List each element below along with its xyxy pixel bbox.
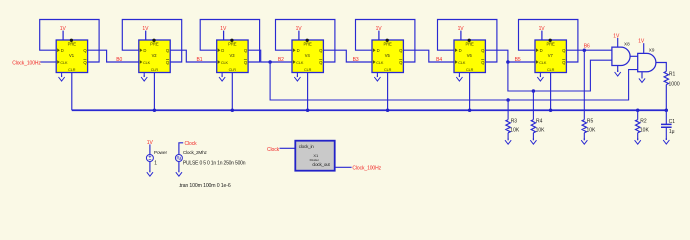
AND gate X9 (638, 48, 656, 72)
svg-text:D: D (143, 48, 146, 53)
wire 1V stub V4 (298, 31, 300, 40)
svg-text:B5: B5 (515, 57, 521, 63)
svg-text:B3: B3 (353, 57, 359, 63)
flip-flop V6 (454, 39, 485, 73)
wire B5 net to X8 input (508, 60, 612, 91)
resistor R1 (664, 71, 668, 84)
svg-text:CLR: CLR (384, 68, 392, 72)
svg-text:PULSE 0 5 0 1n 1n 250n 500n: PULSE 0 5 0 1n 1n 250n 500n (183, 160, 246, 166)
wire Qbar-to-D feedback loop V4 (276, 20, 335, 63)
svg-text:PRE: PRE (383, 42, 392, 47)
flip-flop V7 (535, 39, 566, 73)
svg-text:V2: V2 (152, 53, 158, 58)
wire V6 CLR to reset bus (469, 73, 471, 111)
svg-text:V1: V1 (69, 53, 75, 58)
wire 1V stub V1 (62, 31, 64, 40)
svg-text:Clock_2Mhz: Clock_2Mhz (183, 150, 208, 155)
svg-text:10K: 10K (510, 128, 520, 134)
svg-text:CLR: CLR (466, 68, 474, 72)
svg-text:1μ: 1μ (669, 129, 675, 135)
wire V5 ground stub (376, 73, 378, 78)
svg-text:R2: R2 (640, 119, 647, 125)
resistor R3 (506, 120, 510, 133)
wire R1 to reset bus (665, 85, 667, 111)
junction CLR drop on reset bus (306, 108, 310, 112)
wire Q2 (B1) to V3 CLK (170, 50, 217, 62)
svg-text:CLK: CLK (296, 61, 304, 65)
wire 1V stub V7 (541, 31, 543, 40)
junction CLR drop on reset bus (153, 108, 157, 112)
ground at R5 (581, 138, 587, 144)
wire V7 ground stub (539, 73, 541, 78)
ground at R4 (530, 138, 536, 144)
svg-text:Clock: Clock (267, 147, 280, 153)
wire Q5 (B4) to V6 CLK (403, 50, 454, 62)
wire Power source top lead (149, 144, 151, 154)
svg-text:D: D (297, 48, 300, 53)
wire Q3 (B2) to V4 CLK (248, 50, 292, 62)
ground at V7 (537, 75, 543, 81)
wire Clock source bottom lead (178, 162, 180, 173)
ground at R3 (505, 138, 511, 144)
svg-text:CLK: CLK (376, 61, 384, 65)
junction R2 on reset bus (636, 108, 640, 112)
wire 1V stub V3 (223, 31, 225, 40)
ground at Clock source (176, 170, 182, 176)
AND gate X8 (612, 42, 630, 66)
wire R3 top lead (507, 100, 509, 120)
svg-text:R5: R5 (587, 119, 594, 125)
junction CLR drop on reset bus (231, 108, 235, 112)
resistor R2 (636, 120, 640, 133)
wire Qbar-to-D feedback loop V6 (438, 20, 497, 63)
subcircuit X1 Divider (295, 141, 334, 171)
svg-text:CLK: CLK (60, 61, 68, 65)
junction CLR drop on reset bus (549, 108, 553, 112)
wire 1V stub X9 (643, 43, 645, 53)
svg-text:X1: X1 (313, 153, 319, 158)
svg-text:Clock_100Hz: Clock_100Hz (12, 61, 41, 67)
svg-text:PRE: PRE (546, 42, 555, 47)
resistor R5 (582, 120, 586, 133)
svg-text:Power: Power (154, 150, 168, 156)
wire Clock source to Clock label (179, 143, 183, 155)
wire X9 ground stub (641, 72, 643, 78)
wire Clock_100Hz to V1 CLK (41, 61, 57, 63)
junction R4 on B5 net (532, 89, 536, 93)
wire V4 ground stub (296, 73, 298, 78)
wire Clock to X1 clock_in (280, 147, 296, 149)
wire C1 top lead (665, 110, 667, 124)
svg-text:B6: B6 (584, 43, 590, 49)
svg-text:CLR: CLR (304, 68, 312, 72)
svg-text:Clock_100Hz: Clock_100Hz (352, 166, 381, 172)
ground at V4 (294, 75, 300, 81)
wire V2 CLR to reset bus (153, 73, 155, 111)
svg-text:X9: X9 (649, 48, 655, 53)
ground at R2 (635, 138, 641, 144)
ground at V2 (141, 75, 147, 81)
svg-text:V3: V3 (229, 53, 235, 58)
flip-flop V5 (372, 39, 403, 73)
wire X1 clock_out (335, 166, 352, 168)
wire Q4 (B3) to V5 CLK (323, 50, 372, 62)
wire V1 CLR to reset bus (71, 73, 73, 111)
ground at C1 (663, 138, 669, 144)
wire Qbar-to-D feedback loop V2 (122, 20, 181, 63)
voltage source Clock_2Mhz (175, 150, 245, 167)
wire V6 ground stub (458, 73, 460, 78)
wire Q1 (B0) to V2 CLK (88, 50, 139, 62)
svg-text:PRE: PRE (228, 42, 237, 47)
svg-text:X8: X8 (624, 42, 630, 47)
wire B6 down to R5 (583, 50, 585, 119)
ground at V1 (59, 75, 65, 81)
junction CLR drop on reset bus (468, 108, 472, 112)
wire Qbar-to-D feedback loop V1 (40, 20, 99, 63)
svg-text:CLK: CLK (143, 61, 151, 65)
svg-text:.tran 100m 100m 0 1e-6: .tran 100m 100m 0 1e-6 (179, 183, 231, 189)
svg-text:D: D (377, 48, 380, 53)
wire reset bus CLR net (72, 109, 667, 111)
svg-text:R1: R1 (669, 71, 676, 77)
svg-text:PRE: PRE (68, 42, 77, 47)
wire 1V stub V6 (460, 31, 462, 40)
flip-flop V2 (139, 39, 170, 73)
wire R5 bottom lead (583, 133, 585, 140)
svg-text:B4: B4 (436, 57, 442, 63)
wire Qbar-to-D feedback loop V5 (356, 20, 415, 63)
svg-text:B0: B0 (116, 57, 122, 63)
wire X8 output to X9 input (630, 55, 638, 57)
flip-flop V3 (217, 39, 248, 73)
wire 1V stub X8 (617, 38, 619, 47)
wire R4 top lead (532, 91, 534, 120)
svg-text:CLR: CLR (547, 68, 555, 72)
svg-text:PRE: PRE (303, 42, 312, 47)
svg-text:B2: B2 (278, 57, 284, 63)
svg-text:V7: V7 (548, 53, 554, 58)
svg-text:1: 1 (154, 160, 157, 166)
ground at V5 (374, 75, 380, 81)
wire X9 output to R1 (656, 63, 666, 72)
wire 1V stub V5 (378, 31, 380, 40)
wire C1 bottom lead (665, 128, 667, 140)
wire R3 bottom lead (507, 133, 509, 140)
ground at X8 (615, 70, 621, 76)
wire R2 bottom lead (637, 133, 639, 140)
svg-text:R3: R3 (511, 119, 518, 125)
svg-text:V4: V4 (305, 53, 311, 58)
junction CLR drop on reset bus (386, 108, 390, 112)
wire Qbar-to-D feedback loop V3 (200, 20, 259, 63)
wire V7 CLR to reset bus (550, 73, 552, 111)
capacitor C1 (661, 119, 675, 135)
flip-flop V1 (56, 39, 87, 73)
wire Q7 (B6) to X8 input (566, 49, 612, 51)
svg-text:10K: 10K (536, 128, 546, 134)
svg-text:D: D (221, 48, 224, 53)
wire V2 ground stub (143, 73, 145, 78)
junction R3 on B2 net (506, 98, 510, 102)
svg-text:CLR: CLR (229, 68, 237, 72)
svg-text:10K: 10K (587, 128, 597, 134)
ground at V3 (219, 75, 225, 81)
ground at V6 (456, 75, 462, 81)
svg-text:1000: 1000 (669, 82, 680, 88)
wire V5 CLR to reset bus (387, 73, 389, 111)
wire V3 ground stub (221, 73, 223, 78)
svg-text:CLK: CLK (221, 61, 229, 65)
svg-text:D: D (459, 48, 462, 53)
wire X8 ground stub (617, 66, 619, 72)
wire 1V stub V2 (145, 31, 147, 40)
wire V3 CLR to reset bus (231, 73, 233, 111)
wire R4 bottom lead (532, 133, 534, 140)
svg-text:V6: V6 (467, 53, 473, 58)
svg-text:Clock: Clock (185, 141, 198, 147)
svg-text:1V: 1V (613, 33, 620, 39)
svg-text:clock_in: clock_in (299, 144, 314, 149)
wire Qbar-to-D feedback loop V7 (519, 20, 578, 63)
resistor R4 (531, 120, 535, 133)
ground at X9 (639, 76, 645, 82)
wire Power source bottom lead (149, 162, 151, 173)
wire R2 top lead (637, 110, 639, 119)
svg-text:CLR: CLR (68, 68, 76, 72)
svg-text:CLR: CLR (151, 68, 159, 72)
junction reset bus / R1 / C1 (665, 108, 669, 112)
wire V1 ground stub (61, 73, 63, 78)
svg-text:clock_out: clock_out (312, 162, 330, 167)
svg-text:C1: C1 (669, 119, 676, 125)
svg-text:V5: V5 (385, 53, 391, 58)
svg-text:CLK: CLK (458, 61, 466, 65)
wire B2 net to X9 input (270, 62, 638, 100)
flip-flop V4 (292, 39, 323, 73)
junction B5 tap (506, 60, 510, 64)
svg-text:R4: R4 (536, 119, 543, 125)
svg-text:PRE: PRE (465, 42, 474, 47)
wire V4 CLR to reset bus (307, 73, 309, 111)
svg-text:D: D (540, 48, 543, 53)
svg-text:10K: 10K (640, 128, 650, 134)
junction B6 tap (583, 48, 587, 52)
svg-text:CLK: CLK (539, 61, 547, 65)
svg-text:D: D (61, 48, 64, 53)
wire Q6 (B5) to V7 CLK (485, 50, 535, 62)
voltage source Power 1V (146, 150, 167, 166)
junction B2 tap (268, 60, 272, 64)
ground at Power source (147, 170, 153, 176)
svg-text:B1: B1 (197, 57, 203, 63)
svg-text:PRE: PRE (150, 42, 159, 47)
